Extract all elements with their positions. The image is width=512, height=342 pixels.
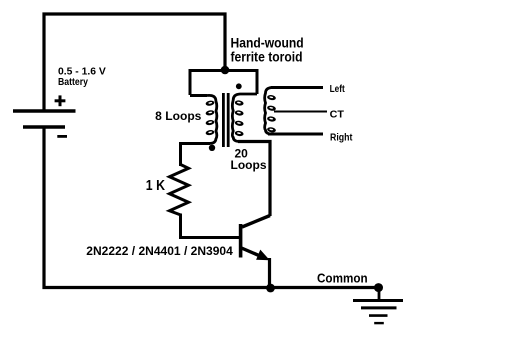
wire: battery + up left rail, across top, down to transformer junction [44, 14, 225, 110]
node: junction dot common/ground [374, 283, 383, 292]
wire: secondary bottom lead to collector drop [238, 142, 270, 217]
transistor Q1 collector diagonal [242, 216, 270, 228]
wire: transformer top connecting bar (open-bottom box) [190, 71, 257, 96]
transistor Q1 base bar [239, 224, 243, 258]
node: phase dot secondary top [236, 83, 242, 89]
wire: CT output lead [274, 111, 327, 113]
svg-text:ferrite toroid: ferrite toroid [231, 50, 303, 65]
inductor: output winding (Left/CT/Right) [265, 88, 277, 135]
wire: left rail down from battery - to bottom rail, across to ground [44, 126, 379, 288]
wire: Right output lead [268, 133, 323, 136]
transistor Q1 emitter arrowhead [256, 250, 270, 261]
battery B1 plate - (short) [23, 125, 65, 128]
inductor: secondary winding 20 loops [232, 94, 257, 142]
label: 20 Loops [231, 147, 267, 172]
wire: emitter down to common rail [268, 258, 271, 288]
label: Hand-wound ferrite toroid [231, 36, 304, 65]
wire: left winding bottom lead down to resistor [181, 144, 211, 167]
svg-text:Right: Right [330, 132, 353, 143]
node: junction dot emitter/common [266, 284, 275, 293]
svg-text:0.5 - 1.6 V: 0.5 - 1.6 V [58, 66, 106, 77]
wire: Left output lead [271, 86, 323, 89]
svg-text:8 Loops: 8 Loops [155, 109, 202, 123]
wire: left winding top lead [190, 94, 207, 97]
svg-text:Battery: Battery [58, 77, 88, 88]
wire: resistor bottom to transistor base [181, 214, 240, 238]
transistor Q1 emitter diagonal [242, 248, 263, 257]
svg-text:Left: Left [330, 84, 346, 95]
svg-text:Hand-wound: Hand-wound [231, 36, 304, 51]
node: phase dot primary bottom [209, 145, 215, 151]
wire: ground stub [378, 288, 381, 301]
resistor R1 zigzag [170, 165, 189, 216]
battery B1 plate + (long) [13, 109, 76, 112]
transformer T1 core [223, 93, 228, 147]
ground symbol [353, 301, 403, 324]
svg-text:CT: CT [330, 109, 345, 121]
svg-text:Common: Common [317, 271, 368, 286]
svg-text:Loops: Loops [231, 158, 267, 172]
inductor: primary winding 8 loops [205, 95, 217, 143]
svg-text:1 K: 1 K [146, 177, 165, 194]
battery + symbol [55, 95, 66, 106]
node: junction dot at transformer top feed [221, 66, 230, 75]
battery - symbol [57, 135, 67, 138]
label: 0.5 - 1.6 V Battery [58, 66, 106, 88]
svg-text:2N2222 / 2N4401 / 2N3904: 2N2222 / 2N4401 / 2N3904 [86, 244, 233, 258]
